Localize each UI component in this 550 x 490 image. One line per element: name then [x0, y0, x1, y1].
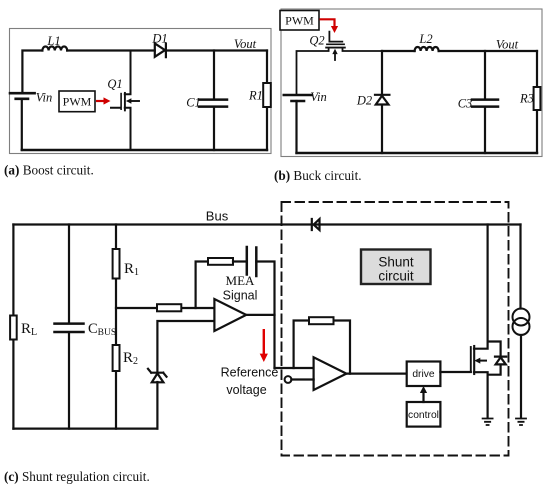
red arrow PWM to Q2 — [320, 19, 339, 33]
wire to op-amp minus input — [116, 307, 214, 309]
svg-text:Shunt: Shunt — [378, 255, 414, 270]
svg-text:R1: R1 — [248, 89, 263, 103]
capacitor C3 wires — [484, 51, 486, 153]
svg-text:PWM: PWM — [285, 14, 314, 28]
svg-text:voltage: voltage — [226, 383, 266, 397]
svg-text:(a) Boost circuit.: (a) Boost circuit. — [4, 163, 94, 178]
resistor RL — [10, 316, 17, 340]
buck circuit frame (b) — [281, 9, 542, 157]
series resistor — [157, 304, 181, 311]
feedback tap — [196, 262, 208, 309]
PWM box (a) — [59, 91, 95, 112]
capacitor CBUS wires — [68, 225, 70, 429]
diode D2 — [375, 51, 389, 153]
svg-text:Vout: Vout — [234, 37, 257, 51]
boost circuit frame (a) — [10, 29, 272, 154]
svg-text:control: control — [408, 410, 439, 421]
transistor Q1 — [111, 51, 131, 151]
body diode Q3 — [488, 342, 507, 375]
wire top-left (a) — [22, 51, 42, 94]
wire D1 to right (a) — [166, 49, 267, 51]
wire battery to bottom (b) — [295, 101, 297, 153]
shunt circuit label box — [361, 250, 431, 285]
svg-text:Vout: Vout — [496, 38, 519, 52]
wire Q2 to L2 — [382, 50, 415, 52]
svg-text:(b) Buck circuit.: (b) Buck circuit. — [274, 168, 362, 183]
battery Vin (a) — [10, 93, 35, 99]
svg-text:PWM: PWM — [63, 95, 92, 109]
svg-text:(c) Shunt regulation circuit.: (c) Shunt regulation circuit. — [4, 469, 150, 484]
resistor R1 — [263, 83, 271, 107]
input port circle — [285, 376, 292, 383]
op-amp U1 — [214, 299, 246, 331]
wire circle to op-amp U2 — [291, 378, 313, 380]
capacitor C1 wires — [213, 51, 215, 151]
R1 R2 branch wire — [115, 225, 117, 429]
bottom wire (c) — [13, 428, 157, 430]
left wire RL branch — [12, 225, 14, 429]
svg-text:Vin: Vin — [310, 90, 326, 104]
zener to bottom wire — [156, 382, 158, 429]
red arrow PWM to Q1 — [96, 97, 111, 104]
svg-text:L2: L2 — [418, 32, 432, 46]
feedback resistor — [208, 258, 233, 265]
capacitor CBUS — [55, 324, 84, 332]
op-amp U2 feedback resistor — [309, 317, 334, 324]
ground current source — [516, 419, 526, 426]
svg-text:D1: D1 — [151, 32, 167, 46]
ground shunt MOSFET — [483, 419, 493, 426]
control box — [407, 402, 441, 427]
svg-text:drive: drive — [412, 369, 435, 380]
svg-text:Bus: Bus — [206, 209, 229, 224]
red arrow reference voltage — [260, 329, 268, 362]
arrow control to drive — [422, 392, 424, 402]
battery Vin (b) — [284, 95, 312, 101]
wire resistor to cap — [233, 260, 247, 262]
right wire (a) — [266, 51, 268, 151]
resistor R1 (c) — [113, 249, 120, 279]
svg-text:Signal: Signal — [223, 289, 258, 303]
inductor L1 — [42, 46, 67, 50]
shunt dashed enclosure — [282, 202, 509, 456]
op-amp U2 feedback loop — [294, 321, 350, 374]
op-amp U1 output wire — [246, 314, 274, 316]
PWM box (b) — [280, 11, 319, 31]
op-amp U2 — [314, 357, 347, 390]
wire L2 to right (b) — [439, 50, 537, 52]
drive box — [407, 362, 441, 387]
svg-text:R3: R3 — [519, 92, 534, 106]
bottom wire (b) — [297, 152, 538, 154]
reference wire into shunt box — [275, 367, 314, 369]
svg-text:C1: C1 — [186, 96, 201, 110]
svg-text:circuit: circuit — [378, 269, 414, 284]
svg-text:Q1: Q1 — [107, 77, 122, 91]
zener diode — [148, 369, 167, 377]
bus wire — [13, 223, 520, 225]
right wire (b) — [536, 51, 538, 153]
op-amp U2 output to drive — [346, 373, 406, 375]
svg-text:L1: L1 — [46, 34, 60, 48]
transistor Q2 — [297, 32, 383, 95]
MEA capacitor — [247, 247, 256, 276]
current source — [513, 309, 530, 326]
svg-text:Q2: Q2 — [309, 34, 324, 48]
bus diode — [312, 219, 320, 230]
bus to current source wire — [519, 225, 521, 309]
svg-text:MEA: MEA — [226, 273, 256, 288]
wire drive to gate — [440, 371, 470, 373]
bottom wire (a) — [22, 149, 267, 151]
wire to op-amp plus input — [157, 321, 214, 373]
svg-text:Reference: Reference — [221, 366, 279, 380]
resistor R2 (c) — [113, 345, 120, 371]
diode D1 — [155, 43, 166, 57]
wire L1 to D1 — [67, 49, 155, 51]
current source to ground wire — [520, 335, 522, 418]
svg-text:D2: D2 — [356, 94, 372, 108]
capacitor C1 — [199, 100, 227, 107]
shunt MOSFET Q3 — [470, 347, 472, 372]
svg-text:Vin: Vin — [36, 91, 52, 105]
wire battery to bottom (a) — [21, 99, 23, 150]
svg-text:C3: C3 — [458, 97, 473, 111]
inductor L2 — [415, 47, 439, 51]
resistor R3 — [534, 87, 541, 110]
wire cap to output node — [256, 262, 274, 369]
capacitor C3 — [472, 100, 498, 107]
